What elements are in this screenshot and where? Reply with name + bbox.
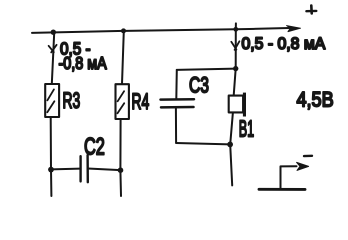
wire R4 bottom to C2 node bbox=[119, 119, 122, 196]
svg-text:R3: R3 bbox=[63, 87, 81, 112]
wire right rail into B1 bbox=[234, 69, 236, 96]
resistor R3 bbox=[45, 84, 59, 117]
wire C2 right lead bbox=[88, 169, 121, 171]
wire C3 loop bottom bbox=[176, 143, 230, 144]
current direction arrow on R3 branch bbox=[49, 45, 57, 53]
label C2 bbox=[84, 133, 105, 160]
svg-text:C2: C2 bbox=[84, 133, 105, 160]
junction dot C3 top bbox=[233, 66, 238, 71]
wire B1 bottom to node D bbox=[230, 113, 233, 145]
svg-text:R4: R4 bbox=[132, 88, 150, 113]
transducer B1 earphone bbox=[229, 93, 246, 117]
minus polarity symbol bbox=[304, 155, 312, 158]
arrowhead of positive rail bbox=[287, 26, 301, 32]
wire negative rail arrow bbox=[281, 162, 309, 189]
svg-text:0,5 - 0,8 мА: 0,5 - 0,8 мА bbox=[242, 35, 326, 54]
label current value right bbox=[242, 35, 326, 54]
wire C3 loop left upper bbox=[175, 70, 178, 99]
wire C3 loop top bbox=[177, 69, 236, 70]
svg-text:-0,8 мА: -0,8 мА bbox=[59, 53, 107, 73]
capacitor C2 bbox=[81, 155, 88, 182]
svg-text:В1: В1 bbox=[239, 115, 254, 141]
wire R3 branch from rail bbox=[52, 33, 54, 84]
capacitor C3 bbox=[161, 99, 195, 107]
current direction arrow on right rail bbox=[231, 41, 239, 50]
label R4 bbox=[132, 88, 150, 113]
wire R4 branch from rail bbox=[122, 31, 124, 84]
label C3 bbox=[189, 74, 209, 98]
wire R3 bottom to C2 node bbox=[50, 117, 53, 196]
junction dot C2 left bbox=[48, 167, 54, 173]
+ polarity symbol bbox=[306, 6, 316, 14]
wire top positive rail bbox=[32, 28, 294, 33]
node C: junction dot top-right bbox=[233, 27, 238, 32]
junction dot C2 right bbox=[118, 167, 124, 173]
wire below node D bbox=[230, 145, 232, 186]
node B: junction dot top-middle bbox=[121, 28, 126, 33]
wire C3 loop left lower bbox=[175, 109, 177, 143]
node A: junction dot top-left bbox=[51, 30, 56, 35]
svg-text:4,5В: 4,5В bbox=[297, 88, 334, 112]
resistor R4 bbox=[116, 84, 129, 119]
label current value left line1 bbox=[60, 38, 91, 58]
label B1 bbox=[239, 115, 254, 141]
label R3 bbox=[63, 87, 81, 112]
node D: junction dot bottom bbox=[227, 142, 233, 148]
label battery voltage 4,5 В bbox=[297, 88, 334, 112]
negative rail bottom bar bbox=[259, 188, 305, 191]
label current value left line2 bbox=[59, 53, 107, 73]
wire C2 left lead bbox=[51, 168, 80, 171]
wire right vertical rail upper bbox=[235, 23, 237, 68]
svg-text:C3: C3 bbox=[189, 74, 209, 98]
